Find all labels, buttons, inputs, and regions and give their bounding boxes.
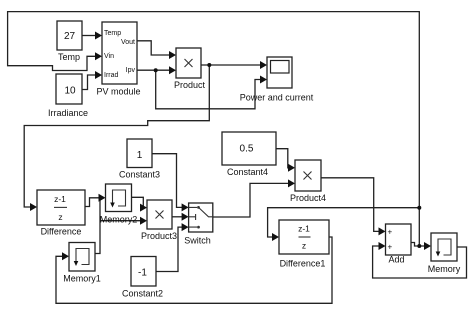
svg-text:z-1: z-1	[298, 223, 310, 233]
svg-text:z: z	[58, 212, 62, 222]
svg-text:Temp: Temp	[58, 52, 80, 62]
svg-text:27: 27	[64, 31, 76, 42]
svg-text:Constant3: Constant3	[119, 170, 160, 180]
svg-text:Difference: Difference	[41, 227, 82, 237]
svg-text:-1: -1	[138, 268, 147, 279]
svg-text:Temp: Temp	[104, 30, 121, 37]
svg-text:Constant4: Constant4	[227, 167, 268, 177]
svg-text:Irradiance: Irradiance	[48, 108, 88, 118]
svg-text:Memory1: Memory1	[63, 274, 101, 284]
svg-text:Memory: Memory	[428, 264, 461, 274]
svg-text:Irrad: Irrad	[104, 72, 119, 79]
svg-text:Vout: Vout	[121, 39, 135, 46]
svg-text:Difference1: Difference1	[280, 259, 326, 269]
svg-text:Switch: Switch	[184, 236, 211, 246]
svg-text:Ipv: Ipv	[126, 67, 136, 74]
svg-text:Power and current: Power and current	[240, 93, 314, 103]
svg-text:1: 1	[137, 150, 143, 161]
svg-text:Vin: Vin	[104, 53, 114, 60]
svg-text:z-1: z-1	[54, 194, 66, 204]
svg-text:10: 10	[64, 86, 76, 97]
svg-text:Memory2: Memory2	[100, 215, 138, 225]
svg-text:Product: Product	[174, 80, 206, 90]
svg-text:0.5: 0.5	[240, 144, 254, 155]
svg-text:Product3: Product3	[141, 231, 177, 241]
svg-text:Product4: Product4	[290, 193, 326, 203]
svg-text:PV module: PV module	[96, 87, 140, 97]
svg-text:z: z	[302, 241, 306, 251]
svg-text:Constant2: Constant2	[122, 289, 163, 299]
svg-text:+: +	[388, 228, 393, 237]
svg-text:+: +	[388, 243, 393, 252]
svg-text:Add: Add	[388, 255, 404, 265]
